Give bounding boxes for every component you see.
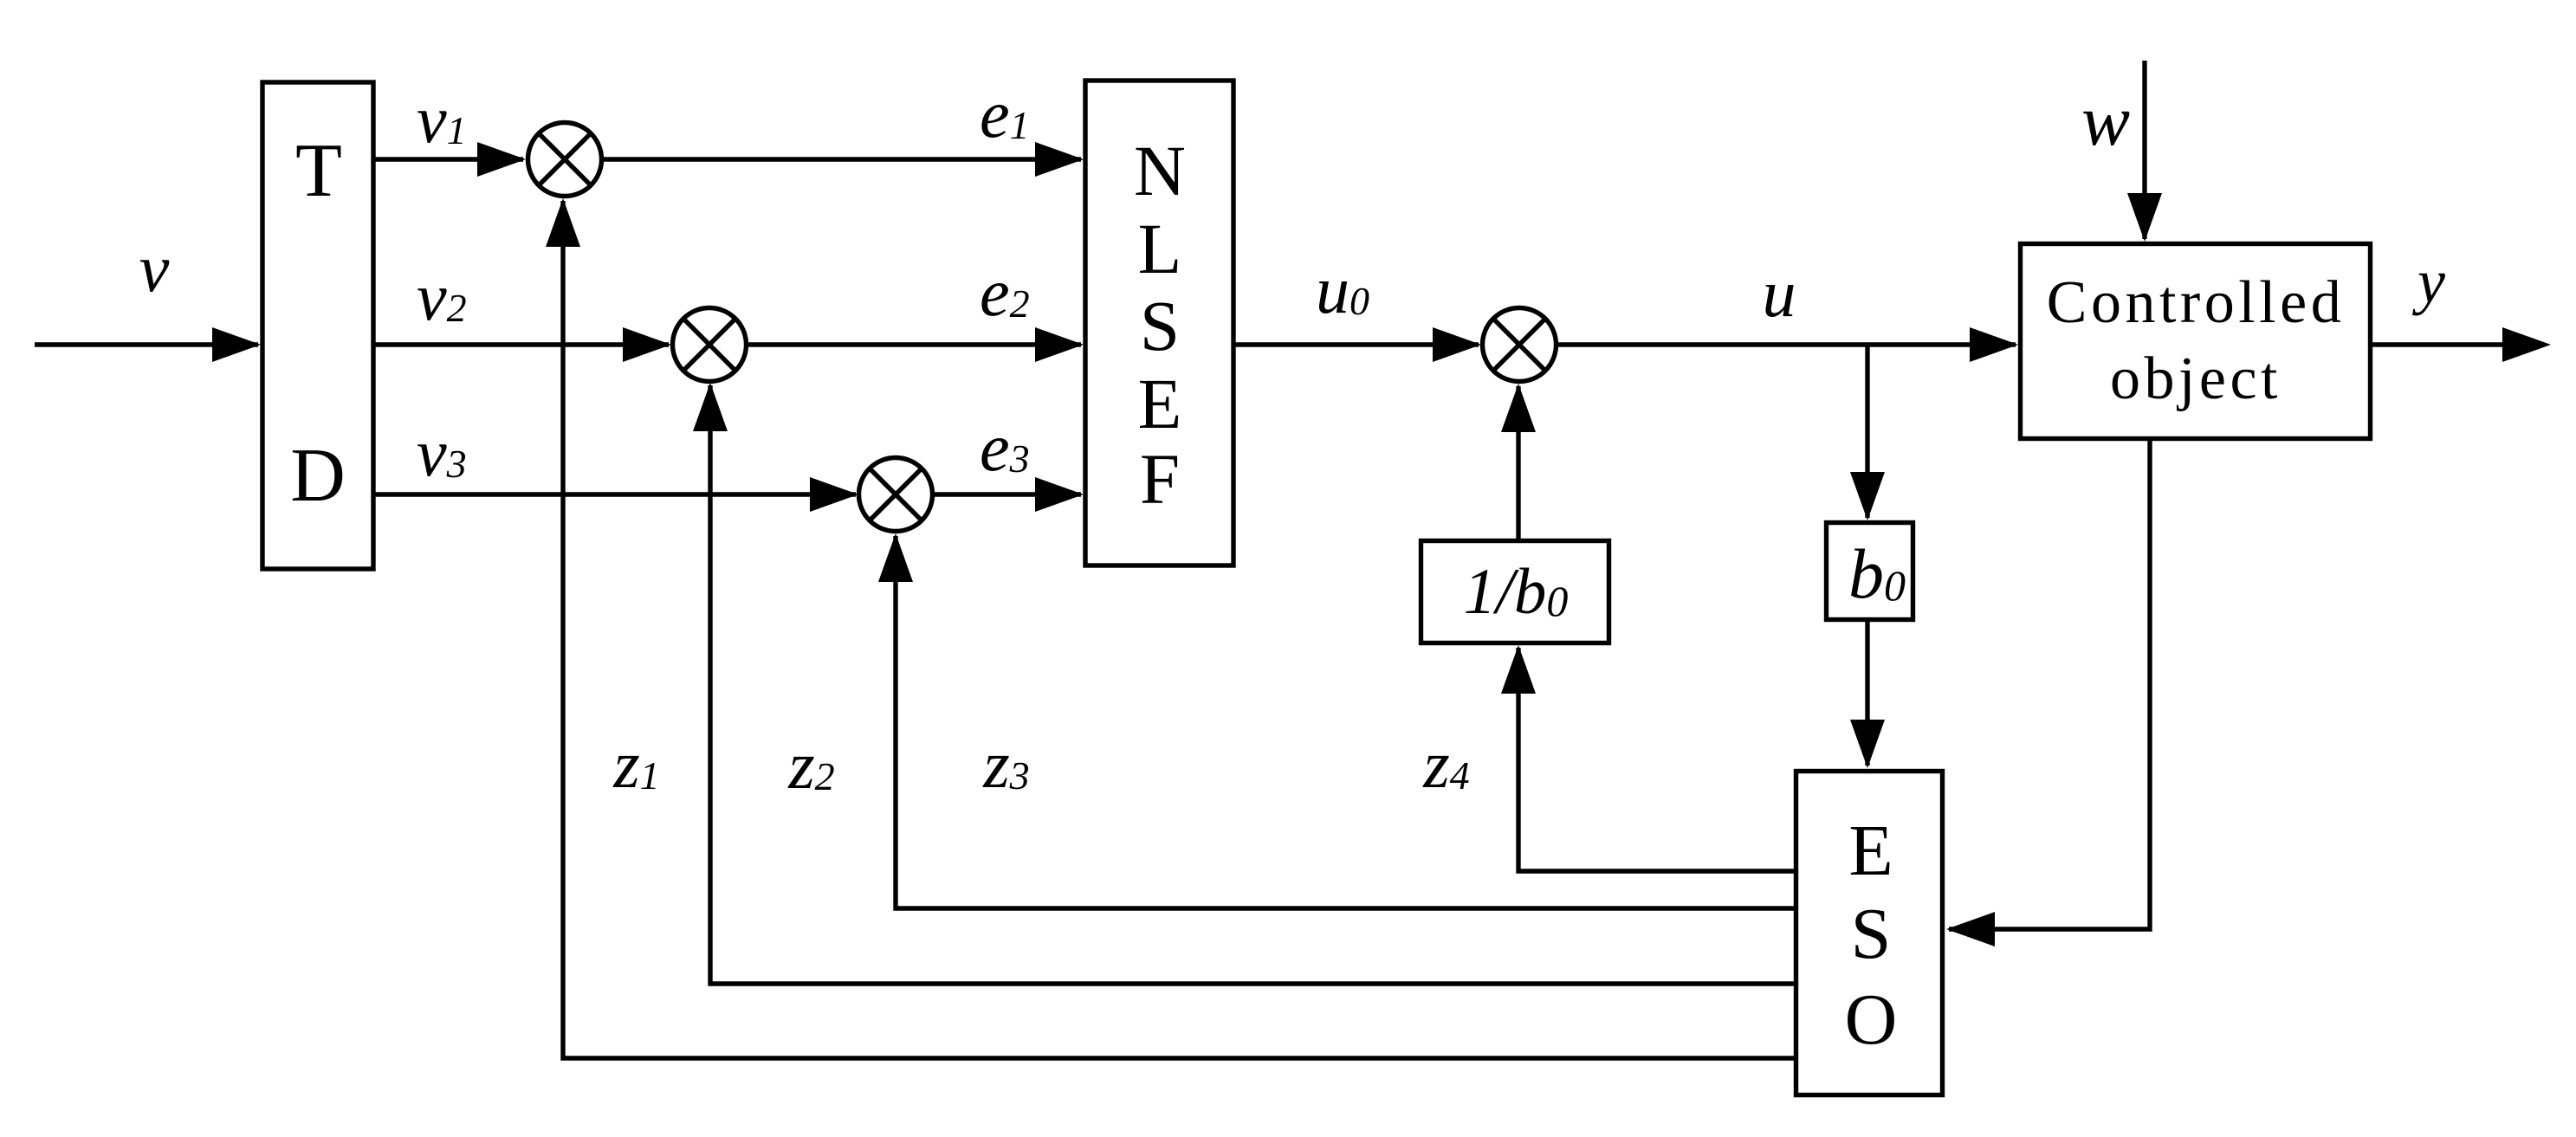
svg-text:b0: b0 — [1848, 534, 1906, 613]
svg-text:v3: v3 — [417, 415, 467, 490]
svg-text:v: v — [139, 230, 170, 306]
svg-text:e1: e1 — [980, 76, 1030, 152]
svg-text:w: w — [2081, 81, 2130, 161]
wire v2 — [373, 327, 671, 362]
svg-text:z1: z1 — [612, 727, 659, 802]
svg-text:NLSEF: NLSEF — [1134, 131, 1186, 519]
wire 1/b0 to S4 — [1501, 384, 1536, 539]
block 1/b0 — [1421, 541, 1609, 643]
wire e3 — [932, 477, 1084, 512]
wire v1 — [373, 142, 526, 177]
svg-text:v1: v1 — [417, 81, 467, 157]
svg-text:z4: z4 — [1422, 727, 1469, 802]
summing junction S2 — [673, 308, 747, 382]
wire u0 — [1235, 327, 1481, 362]
wire w — [2127, 61, 2162, 242]
wire y output — [2372, 327, 2551, 362]
block Controlled object — [2021, 244, 2371, 439]
wire z3 — [878, 533, 1794, 908]
svg-text:D: D — [290, 434, 346, 518]
svg-text:u0: u0 — [1316, 252, 1369, 327]
svg-text:e2: e2 — [980, 255, 1030, 330]
svg-text:y: y — [2411, 247, 2445, 316]
wire v3 — [373, 477, 858, 512]
wire u branch to b0 — [1850, 345, 1885, 520]
svg-text:1/b0: 1/b0 — [1464, 556, 1569, 628]
wire z4 — [1501, 645, 1794, 871]
wire e2 — [746, 327, 1084, 362]
svg-text:v2: v2 — [417, 259, 467, 334]
block TD — [262, 82, 373, 569]
block ESO — [1796, 772, 1943, 1095]
summing junction S3 — [859, 458, 933, 532]
wire b0 to ESO — [1850, 622, 1885, 768]
block NLSEF — [1085, 81, 1233, 565]
wire v input — [35, 327, 261, 362]
wire e1 — [601, 142, 1084, 177]
svg-text:ESO: ESO — [1845, 811, 1898, 1060]
block b0 — [1827, 523, 1913, 620]
svg-text:z3: z3 — [982, 727, 1029, 802]
wire z1 — [546, 198, 1794, 1058]
summing junction S4 — [1483, 308, 1557, 382]
wire u — [1556, 327, 2018, 362]
wire z2 — [693, 383, 1794, 984]
svg-text:u: u — [1763, 255, 1796, 331]
summing junction S1 — [528, 123, 602, 197]
svg-text:z2: z2 — [787, 727, 834, 803]
svg-text:e3: e3 — [980, 410, 1030, 485]
svg-text:Controlledobject: Controlledobject — [2047, 269, 2345, 412]
svg-text:T: T — [295, 129, 342, 213]
wire y feedback to ESO — [1946, 441, 2150, 946]
